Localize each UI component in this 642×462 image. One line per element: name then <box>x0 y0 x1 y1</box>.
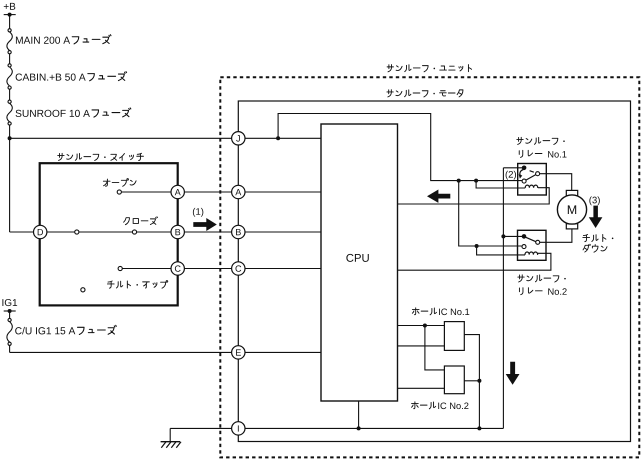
wire IG1 lead <box>4 310 16 312</box>
wire hallIC2 output <box>464 380 479 382</box>
junction CPU ground <box>357 426 361 430</box>
label SUNROOF fuse <box>16 110 90 117</box>
label IG1 <box>2 299 17 306</box>
wire relay1 to motor top <box>540 174 572 191</box>
node C unit <box>232 262 245 275</box>
label sunroof switch <box>58 153 144 160</box>
contact open <box>117 190 121 194</box>
relay2 contact NO <box>522 245 526 249</box>
wire CPU to hallIC2 pin2 <box>398 387 445 389</box>
label C/U fuse <box>15 327 75 334</box>
label relay2 line2 <box>519 288 542 295</box>
label (3) <box>589 196 599 205</box>
label hall IC1 latin <box>439 309 469 316</box>
wire IG1 rail to E <box>10 351 232 353</box>
label relay2 No.2 <box>548 288 566 295</box>
wire +B lead <box>4 14 16 16</box>
fuse SUNROOF 10A <box>7 100 12 125</box>
arrow relay1 energize direction <box>427 190 450 203</box>
wire IG1 down <box>9 311 11 319</box>
wire I rail <box>245 427 503 429</box>
relay2 moving arm <box>526 237 536 241</box>
wire hallIC1 output <box>464 335 479 429</box>
relay No.1 box <box>518 164 547 196</box>
relay1 moving arm <box>526 175 536 181</box>
wire B link <box>184 231 231 233</box>
wire tilt-up contact to C <box>122 268 171 270</box>
label hall IC2 katakana <box>412 402 436 409</box>
label (2) <box>506 171 516 180</box>
node J <box>232 132 245 145</box>
relay1 alternate position dashes <box>530 171 534 173</box>
wire open contact to A <box>121 191 171 193</box>
label sunroof motor <box>387 90 463 97</box>
relay2 contact motor side <box>536 240 540 244</box>
label CPU <box>346 254 368 262</box>
arrow hall signal <box>506 362 520 385</box>
relay1 contact NO <box>522 179 526 183</box>
node B unit <box>232 225 245 238</box>
junction hall feed <box>423 324 427 328</box>
label (1) <box>193 208 203 217</box>
relay2 coil <box>525 252 538 255</box>
relay1 common contact <box>522 166 527 171</box>
relay1 coil <box>525 185 538 188</box>
wire I to ground <box>170 427 231 429</box>
node A switch <box>171 185 184 198</box>
wire CPU to hallIC1 pin1 <box>398 325 445 327</box>
relay1 action curved arrow <box>520 170 523 176</box>
switch box <box>40 163 178 305</box>
wire CPU to hallIC1 pin2 <box>398 345 445 347</box>
junction +B rail <box>8 136 12 140</box>
wire A link <box>184 191 231 193</box>
contact close left <box>75 230 79 234</box>
node C switch <box>171 262 184 275</box>
fuse CABIN.+B 50A <box>7 64 12 89</box>
arrow (3) tilt down <box>589 206 603 228</box>
wire fuse2-fuse3 <box>9 89 11 100</box>
node IG1 <box>8 309 12 313</box>
label MAIN fuse katakana <box>72 35 111 44</box>
label SUNROOF fuse katakana <box>92 108 131 117</box>
wire fuse3-junction <box>9 125 11 138</box>
arrow (1) switch action <box>193 218 217 231</box>
wire to D <box>10 231 34 233</box>
wire feed to relay2 coil <box>477 246 525 255</box>
wire C to CPU <box>245 268 321 270</box>
ground symbol <box>161 442 181 448</box>
wire ground drop <box>169 428 171 441</box>
label relay1 No.1 <box>548 151 566 157</box>
CPU U1 box <box>321 124 398 401</box>
wire relay1 coil to CPU <box>398 188 550 204</box>
wire B to CPU <box>245 231 321 233</box>
wire A to CPU <box>245 191 321 193</box>
node B switch <box>171 225 184 238</box>
wire relay2 common <box>503 235 524 237</box>
wire feed to relay1 coil <box>476 181 525 188</box>
wire E to CPU <box>245 351 321 353</box>
label hall IC2 latin <box>438 403 468 410</box>
label tilt down line1 <box>583 234 614 241</box>
label hall IC1 katakana <box>412 308 436 315</box>
node +B <box>8 13 12 17</box>
label tilt down line2 <box>583 244 607 252</box>
junction hall outputs <box>477 379 481 383</box>
wire relay1 common <box>503 167 524 169</box>
junction relay feed 2 <box>474 179 478 183</box>
relay2 common contact <box>522 234 527 239</box>
junction relay feed 1 <box>457 179 461 183</box>
contact rest position <box>81 288 85 292</box>
label CABIN fuse <box>16 73 86 80</box>
label CABIN fuse katakana <box>88 72 127 81</box>
wire close row D to B <box>47 231 171 233</box>
hall IC No.1 box <box>444 322 464 351</box>
label +B <box>4 3 15 10</box>
node E unit <box>232 346 245 359</box>
label M <box>568 205 576 214</box>
fuse C/U IG1 15A <box>7 318 12 345</box>
sunroof unit box (dashed) <box>220 77 639 457</box>
contact close right <box>132 230 136 234</box>
label MAIN fuse <box>16 37 70 44</box>
motor M brushes <box>566 190 577 195</box>
wire feed to relay2 contact <box>459 181 522 246</box>
wire CPU ground pin <box>358 401 360 428</box>
node D <box>34 225 47 238</box>
label relay1 line2 <box>519 150 542 157</box>
label relay2 line1 <box>518 275 566 282</box>
label C/U fuse katakana <box>78 325 117 334</box>
label open <box>103 179 136 187</box>
sunroof motor box <box>238 101 630 442</box>
wire +B rail to J <box>10 137 232 139</box>
label relay1 line1 <box>517 137 565 144</box>
relay1 contact motor side <box>536 172 540 176</box>
wire +B down <box>9 15 11 29</box>
contact tilt-up <box>118 266 122 270</box>
wire fuse4 down <box>9 345 11 352</box>
motor M circle <box>557 195 586 224</box>
hall IC No.2 box <box>444 366 464 394</box>
wire B+ feed to relays <box>278 114 522 181</box>
label tilt-up <box>107 281 167 289</box>
wire fuse1-fuse2 <box>9 54 11 64</box>
wire relay2 coil to CPU <box>398 253 551 270</box>
junction relay2 coil feed <box>475 244 479 248</box>
label close <box>124 217 158 225</box>
node I unit <box>232 422 245 435</box>
wire hall feed to IC2 <box>425 326 445 370</box>
wire +B rail down to D <box>9 138 11 232</box>
wire J to CPU <box>245 137 321 139</box>
fuse MAIN 200A <box>7 29 12 54</box>
wire relay2 to motor bottom <box>540 229 572 242</box>
wire ground riser <box>502 168 504 429</box>
junction J feed <box>276 136 280 140</box>
junction hall ground <box>477 426 481 430</box>
relay No.2 box <box>518 230 547 260</box>
node A unit <box>232 185 245 198</box>
wire C link <box>184 268 231 270</box>
label sunroof unit <box>387 65 471 72</box>
junction relay2 common tap <box>501 234 505 238</box>
